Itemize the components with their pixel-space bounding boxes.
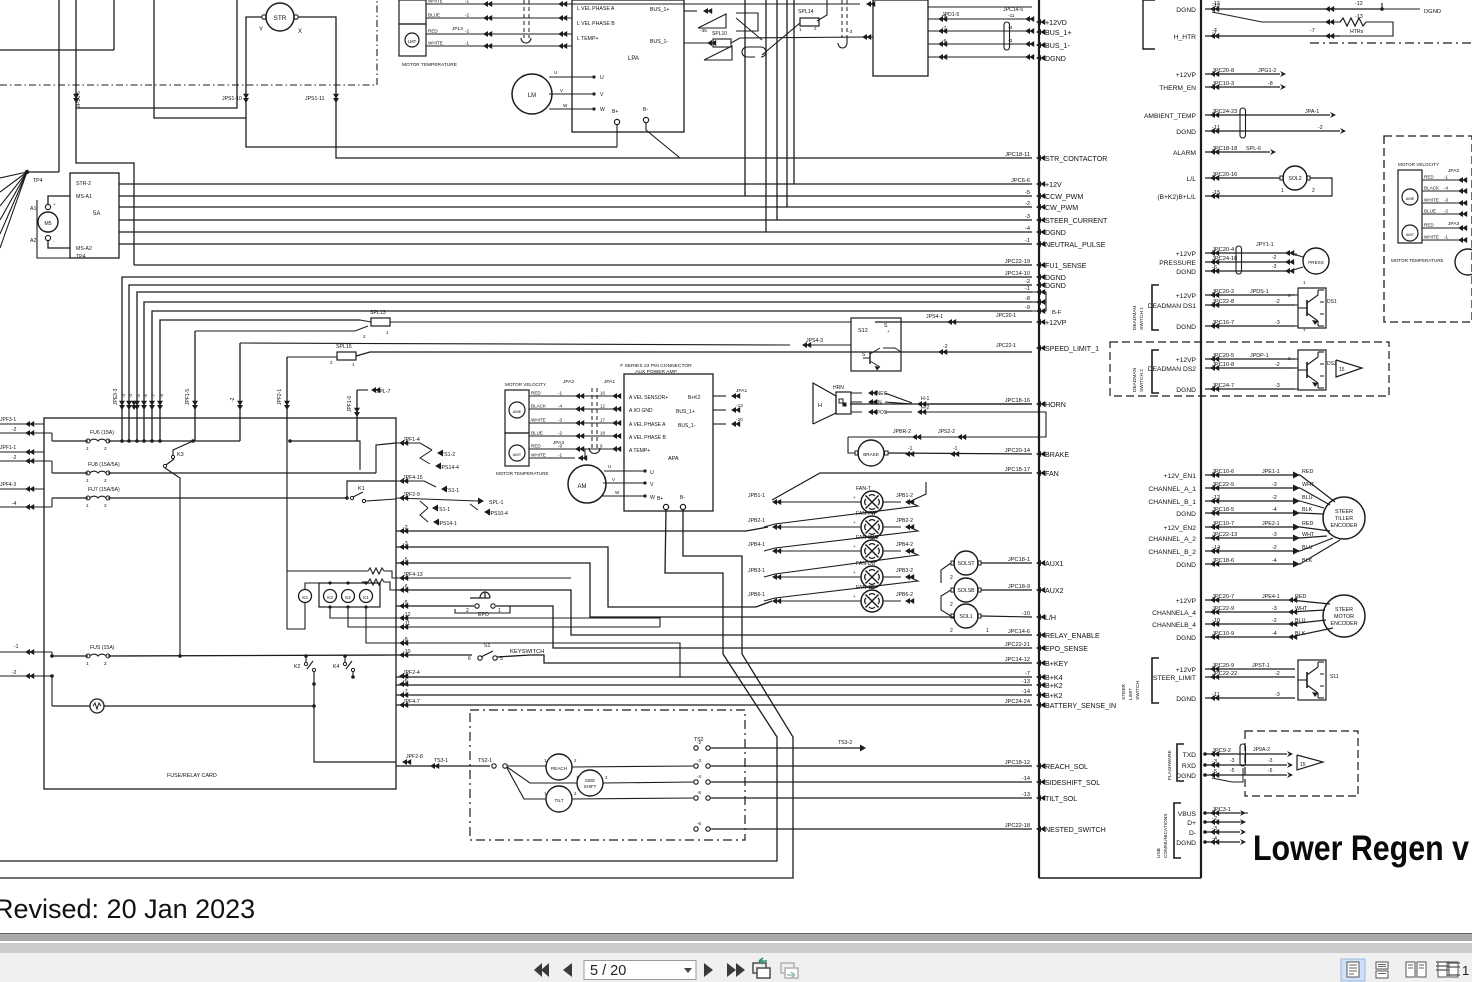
wire JPF2-9 SPL-1	[396, 498, 478, 501]
wire FU8 row	[52, 472, 88, 474]
layout icon 2	[1376, 962, 1388, 969]
toolbar strips	[0, 933, 1472, 934]
wire brake out	[888, 453, 1032, 454]
next view icon (disabled)	[781, 963, 798, 978]
fuse FUS	[86, 654, 90, 658]
terminal B- APA	[680, 504, 685, 509]
wire H_HTR row	[1205, 35, 1340, 37]
wires LPA BUS out	[684, 10, 697, 12]
wire left stub rows	[0, 423, 44, 425]
flag triangle a	[698, 14, 726, 28]
wire flashware jog	[1212, 768, 1243, 782]
wires JPD rows	[928, 6, 1032, 8]
terminal A2	[45, 235, 50, 240]
wire -2 drop	[239, 343, 241, 441]
wire FUS row	[52, 655, 88, 657]
wire left bus D	[154, 0, 246, 118]
bracket top left	[1143, 0, 1155, 49]
wires usb	[1205, 812, 1240, 814]
wire S12 speed out	[883, 348, 901, 352]
wires flashware	[1205, 753, 1287, 755]
solenoid SOL2	[1283, 166, 1307, 190]
transistor DS1	[1298, 288, 1326, 328]
wire JPS4-3 row	[240, 343, 790, 345]
wire pressure jog	[1205, 262, 1240, 277]
fuse FU7	[86, 496, 90, 500]
prev page button	[563, 963, 572, 977]
splice SPL15	[337, 352, 356, 360]
wire B+ feed	[616, 125, 618, 147]
wire JPF2-8 row	[396, 765, 490, 767]
wire top-left vertical A	[58, 0, 60, 172]
wire -12 row	[396, 618, 660, 627]
wire -11 row	[396, 626, 660, 628]
next page button	[704, 963, 713, 977]
wire fan zigzag 2	[764, 551, 918, 577]
circle right edge	[1455, 249, 1472, 275]
box APA aux power amp	[624, 374, 713, 511]
wire HTRs loop	[1340, 22, 1393, 36]
wire SOLSB out	[981, 589, 1032, 591]
wire horn H-1	[885, 393, 912, 403]
motor AM	[568, 465, 606, 503]
box top-left	[76, 0, 237, 108]
hook symbol	[838, 38, 847, 48]
horn HRN symbol	[813, 383, 836, 424]
flag triangle 15b	[1297, 755, 1323, 770]
wires pressure	[1205, 252, 1290, 254]
brake solenoid	[858, 440, 884, 466]
wire B- staircase	[0, 510, 793, 878]
wire lamp row	[52, 705, 90, 707]
transistor DS2	[1298, 350, 1326, 390]
wire bus DGND row	[119, 231, 1032, 233]
wire SOL1 out	[981, 616, 1032, 617]
wires tiller fan-in	[1300, 475, 1335, 502]
wire top-left vertical C	[113, 0, 115, 50]
flag triangle b	[704, 46, 732, 60]
relay K3b	[324, 590, 337, 603]
box 5A contactor	[70, 173, 119, 258]
dash-dot top right	[1310, 42, 1472, 44]
node TP4 junction	[25, 170, 29, 174]
page field	[584, 961, 696, 980]
cable tie ambient	[1240, 108, 1246, 138]
bus controller column 2	[1200, 0, 1202, 878]
wires APA right pins	[713, 395, 726, 397]
dash-dot box implements	[470, 710, 745, 840]
wire STR Y to JPS1-10	[246, 17, 617, 147]
arrow JPS1-11	[333, 94, 339, 103]
wire relay loop	[287, 570, 368, 572]
wire SPL13 row	[195, 326, 368, 331]
cable tie APA	[591, 388, 593, 448]
wire -13 row	[1325, 19, 1334, 25]
wire fan zigzag 1	[764, 527, 918, 551]
encoder steer tiller	[1323, 497, 1365, 539]
wire DGND diag	[1212, 12, 1310, 22]
transistor S12 internal	[869, 352, 871, 364]
wires encoder motor	[1205, 599, 1290, 601]
arrow JPS1-10	[243, 94, 249, 103]
wire ambient jog	[1205, 120, 1240, 137]
wire top row to JPD	[572, 3, 860, 5]
arrow JPS4-1	[947, 319, 956, 325]
wire fan top return	[909, 482, 926, 502]
box fuse relay card	[44, 418, 396, 789]
layout icon 1 selected	[1341, 959, 1365, 981]
dashed box deadman2	[1110, 342, 1389, 396]
arrows nest into fuse box	[119, 401, 125, 410]
fan FAN-T	[861, 491, 883, 513]
previous view icon	[753, 958, 770, 978]
wire SOL2 in	[1205, 177, 1280, 179]
node FUS x180	[178, 654, 182, 658]
wires TP4 fan-out	[0, 172, 27, 178]
wire top-left horizontal	[0, 49, 114, 51]
terminal B-	[643, 117, 648, 122]
splice SPL13	[371, 318, 390, 326]
wires AM UVW	[604, 470, 645, 472]
wire bus CCW_PWM row	[119, 195, 1032, 197]
wire S12 +12VP row	[875, 321, 1032, 323]
solenoid SOL1	[954, 604, 978, 628]
wire FU6 row	[52, 440, 88, 442]
wire left joins	[51, 433, 53, 441]
wire bus CW_PWM row	[119, 206, 1032, 208]
bracket deadman1	[1152, 285, 1159, 330]
svg-text:1: 1	[1462, 963, 1469, 978]
wire FU7 row	[52, 497, 88, 499]
terminal TS2-1	[492, 764, 496, 768]
wire brake loop	[848, 437, 855, 453]
bracket steer limit	[1152, 658, 1159, 703]
wires implement outs	[572, 766, 694, 767]
wire SPL15 row	[287, 356, 337, 358]
relay K2b	[342, 590, 355, 603]
switch S1 keyswitch	[478, 656, 482, 660]
wire JPF1-6 drop	[356, 390, 358, 441]
clamp symbol	[742, 47, 766, 57]
wire JPF2-8 arrow	[402, 759, 411, 765]
sideshift solenoid	[577, 770, 603, 796]
wire fan feed	[772, 473, 1032, 500]
flag triangle 15	[1336, 360, 1362, 377]
lamp	[90, 699, 104, 713]
splice SPL-7	[371, 387, 380, 393]
wire fu6 branch	[290, 441, 360, 470]
transistor S11	[1298, 660, 1326, 700]
wire B+ staircase	[0, 510, 777, 861]
dashed box flashware	[1245, 731, 1358, 796]
terminal A1	[45, 204, 50, 209]
box stub left	[736, 13, 758, 31]
wires AME rows	[529, 395, 620, 397]
wire JPF2-1 drop	[286, 357, 288, 441]
wire SPL13 to S12 row	[390, 321, 851, 323]
wire nest verticals join fuse row	[120, 439, 124, 443]
motor LM	[512, 74, 552, 114]
fan FAN-FW2	[861, 540, 883, 562]
arrows fuse box right edge	[399, 440, 408, 446]
tilt solenoid	[546, 786, 572, 812]
arrow JPS2-2	[957, 434, 966, 440]
resistors relay	[368, 568, 384, 574]
wires implement feeds	[507, 765, 546, 767]
bus controller column 1	[1038, 0, 1040, 878]
wire stair -2 to JPB2	[396, 527, 768, 531]
switch EPO	[475, 604, 479, 608]
wires encoder tiller	[1205, 474, 1300, 476]
wires SPL14 leads	[762, 23, 800, 55]
block LMT motor temperature	[399, 24, 426, 56]
wires horn rows	[851, 392, 862, 394]
box S12	[851, 318, 901, 371]
wire EPO feed	[396, 605, 474, 607]
wire M5 leads	[48, 196, 70, 204]
switch K4 lower	[343, 662, 346, 665]
switch K2 lower	[304, 662, 307, 665]
wire K1 out	[366, 499, 396, 501]
wire K2/K4 drops	[314, 672, 396, 762]
revised date	[0, 894, 255, 925]
arrow speed -2	[938, 349, 947, 355]
bus2 wire second pins	[1205, 73, 1280, 75]
dash-dot region border	[0, 84, 377, 86]
wire JPF4-13 row	[396, 577, 571, 579]
reach solenoid	[546, 754, 572, 780]
relay K4	[299, 590, 312, 603]
wire top diag	[736, 18, 762, 40]
switch K1	[350, 496, 353, 499]
bracket usb	[1174, 803, 1181, 858]
bus bottom edge	[1039, 877, 1201, 879]
pressure sensor PRESS	[1303, 248, 1329, 274]
wire DGND top	[1205, 8, 1382, 10]
terminal pairs TS2	[694, 746, 698, 750]
first page button	[534, 963, 549, 977]
wire bus NEUTRAL_PULSE row	[119, 243, 1032, 245]
wire TS3-2	[712, 747, 860, 749]
wire SPL15 to speed limit row	[356, 352, 1032, 356]
switch K3	[171, 455, 174, 458]
wire bus STEER_CURRENT row	[119, 219, 1032, 221]
block AME/AMT right	[1398, 170, 1422, 243]
cable tie JPD	[1004, 22, 1010, 50]
cable tie pressure	[1236, 246, 1242, 274]
layout icon 3	[1406, 962, 1415, 977]
fuse FU6	[86, 439, 90, 443]
wires solenoid commons	[941, 563, 951, 583]
wires LMT rows	[426, 3, 572, 5]
fan FAN-TD	[861, 590, 883, 612]
encoder steer motor	[1323, 595, 1365, 637]
wire K3 drop	[173, 441, 193, 455]
wires DS2	[1295, 358, 1298, 360]
last page button	[727, 963, 745, 977]
wire FU7 jog	[347, 481, 396, 498]
wire JPF4-15 jog	[396, 481, 436, 487]
wire B-F bracket	[1032, 292, 1046, 311]
wire JPF1-5 drop	[194, 331, 196, 441]
solenoid SOLSB	[954, 578, 978, 602]
svg-text:5 / 20: 5 / 20	[590, 963, 626, 979]
wire stair -3 to JPB6	[396, 547, 772, 607]
wire fan zigzag 0	[764, 502, 918, 527]
wire stair -5 EPO to EPO_SENSE	[496, 606, 1032, 648]
dashed box motor velocity right	[1384, 136, 1472, 322]
arrow JPS1-5	[73, 94, 79, 103]
wires right block rows	[1422, 179, 1462, 181]
cable tie flashware	[1240, 744, 1246, 766]
box JPD connector	[873, 0, 928, 76]
bracket deadman2	[1152, 350, 1159, 393]
cable tie dashes JPD	[841, 0, 843, 38]
wire SPL10 to JPD	[731, 37, 866, 43]
wires DS1	[1295, 294, 1298, 296]
cable tie dashes top	[523, 0, 525, 38]
wire JPF1-4 jog	[396, 443, 432, 450]
relay box	[319, 583, 380, 607]
splice SPL14	[800, 18, 819, 26]
relay K1b	[360, 590, 373, 603]
motor velocity block AME/AMT	[505, 390, 529, 433]
wires LM UVW	[549, 76, 594, 78]
wire SOLST out	[981, 562, 1032, 564]
wire SOL2 return	[1205, 178, 1332, 196]
box LPA	[572, 0, 684, 132]
wire keyswitch feed	[396, 654, 472, 656]
resistor HTRs	[1340, 18, 1366, 26]
arrow JPBR-2	[912, 434, 921, 440]
wire stair -5 to L/H	[396, 563, 954, 617]
wire B- feed	[646, 123, 680, 158]
solenoid SOLST	[954, 551, 978, 575]
fan FAN-DU	[861, 566, 883, 588]
wire top-left vertical B (JPS1-5)	[76, 0, 134, 265]
wire nest bundle rows	[122, 277, 1032, 441]
bracket flashware	[1177, 744, 1184, 781]
terminal B+ APA	[663, 504, 668, 509]
wire fan zigzag 3	[764, 577, 918, 601]
wire -8 row	[396, 643, 680, 677]
layout icon 4	[1438, 962, 1447, 977]
wire bus +12V row	[119, 183, 1032, 185]
fuse FU8	[86, 471, 90, 475]
wire horn H-2	[885, 411, 912, 413]
terminal B+	[614, 119, 619, 124]
wire stair -6 to RELAY_ENABLE	[396, 590, 1032, 635]
wire STR X to JPS1-11	[298, 17, 1032, 158]
motor STR	[266, 3, 294, 31]
wires top feeders	[744, 0, 746, 196]
fan FAN-FW	[861, 516, 883, 538]
motor M5	[38, 212, 58, 232]
splice SPL10	[713, 39, 731, 47]
wire keyswitch to B+KEY	[497, 655, 1032, 663]
